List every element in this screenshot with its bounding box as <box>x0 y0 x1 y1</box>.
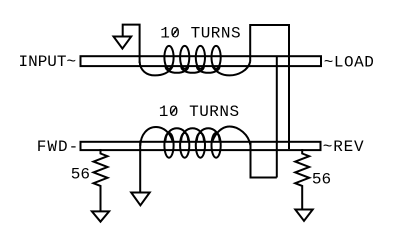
inductor L1 turn 1 <box>164 46 173 69</box>
wire: U link under FWD-REV bar <box>251 141 277 178</box>
svg-text:~REV: ~REV <box>323 138 365 156</box>
svg-text:~LOAD: ~LOAD <box>324 53 375 71</box>
resistor 56 (left, FWD) <box>94 149 108 211</box>
ground (middle arrow) <box>131 193 150 206</box>
inductor L2 top scallops (10 TURNS bottom) <box>140 127 172 146</box>
svg-text:FWD-: FWD- <box>37 138 79 156</box>
inductor L1 turn 4 <box>212 46 221 69</box>
inductor L2 turn 1 <box>164 133 173 158</box>
inductor L1 bottom scallops (10 TURNS top) <box>140 62 173 76</box>
svg-text:56: 56 <box>71 166 90 184</box>
inductor L2 turn 4 <box>212 133 221 158</box>
wire: top coil left lead up and over <box>123 25 140 63</box>
svg-text:56: 56 <box>312 170 331 188</box>
inductor L1 turn 2 <box>180 46 189 69</box>
ground (bottom-right arrow) <box>295 210 312 221</box>
transmission line bar INPUT-LOAD <box>81 56 322 66</box>
resistor 56 (right, REV) <box>295 149 309 209</box>
slash of zero in bottom 10 TURNS <box>171 107 176 114</box>
wire: top coil right lead up, over and down to REV line <box>250 25 289 149</box>
wire: LOAD tap down to bottom loop <box>276 57 278 178</box>
svg-text:10 TURNS: 10 TURNS <box>160 25 241 43</box>
wire: bottom coil left lead down <box>139 141 141 193</box>
svg-text:INPUT~: INPUT~ <box>19 53 77 71</box>
inductor L2 turn 2 <box>180 133 189 158</box>
slash of zero in top 10 TURNS <box>173 29 178 36</box>
ground (top-left arrow) <box>114 37 132 49</box>
inductor L1 turn 3 <box>196 46 205 69</box>
svg-text:10 TURNS: 10 TURNS <box>159 103 240 121</box>
transmission line bar FWD-REV <box>81 142 321 150</box>
ground (bottom-left arrow) <box>92 211 109 221</box>
inductor L2 turn 3 <box>196 133 205 158</box>
